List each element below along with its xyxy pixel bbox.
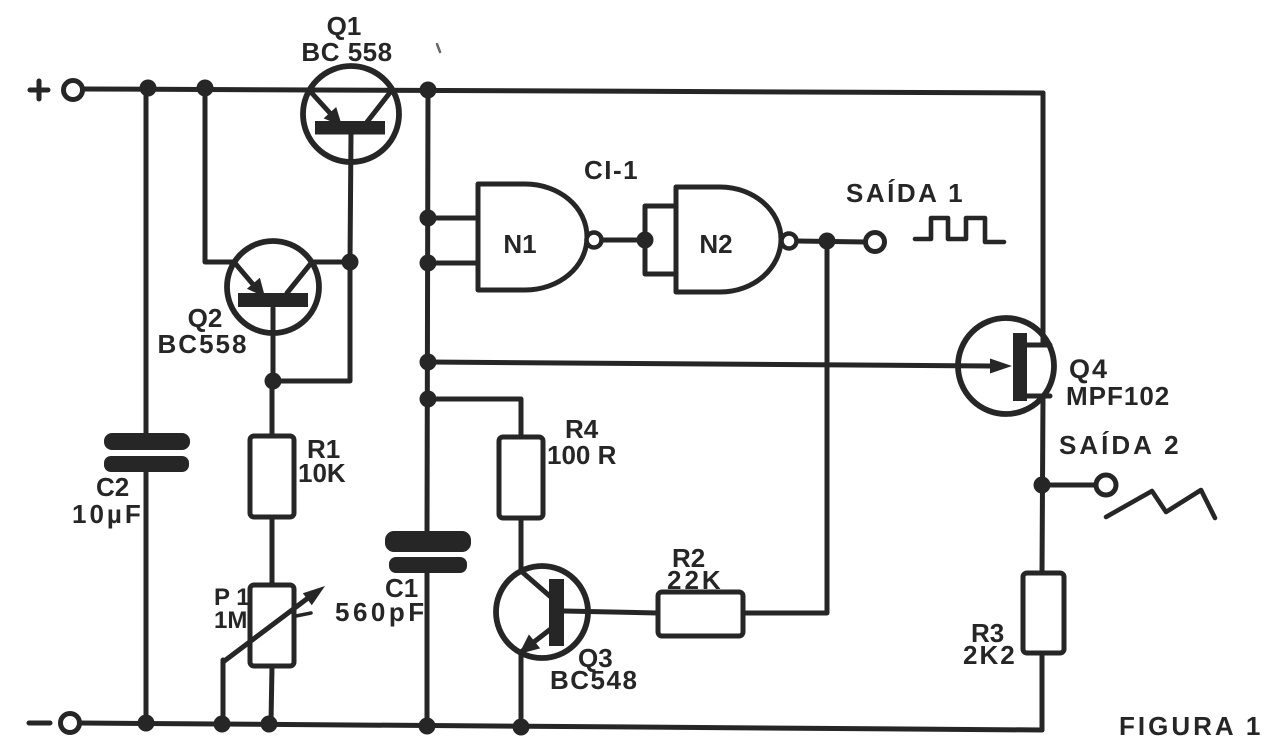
wire Q4 source down — [1042, 396, 1043, 573]
wire R3 bottom lead — [1040, 653, 1045, 730]
node N1 input a — [420, 210, 437, 227]
svg-text:1M: 1M — [214, 607, 247, 634]
svg-text:100 R: 100 R — [547, 440, 617, 470]
wire N1 input stub b — [428, 261, 478, 266]
transistor Q2 — [227, 241, 319, 333]
node rail-C1 — [420, 82, 437, 99]
node saida1 — [819, 233, 836, 250]
wire Q2 base lead — [271, 308, 276, 381]
node Q1 base / Q2 collector — [342, 254, 359, 271]
wire P1 wiper to rail — [221, 660, 226, 724]
transistor Q1 — [303, 66, 399, 162]
wire N2 output — [797, 241, 866, 242]
transistor Q4 — [958, 318, 1054, 414]
svg-text:10K: 10K — [298, 458, 346, 488]
wire R4 feed horizontal — [428, 399, 521, 437]
terminal saida1 — [866, 233, 885, 252]
node rail-C2 — [140, 80, 157, 97]
wire Q2 emitter feed — [205, 89, 234, 262]
tick mark near P1 arrow — [296, 613, 311, 616]
wire bottom rail — [81, 723, 1042, 730]
wire C1 bottom lead — [425, 572, 430, 726]
capacitor C1 — [385, 531, 471, 573]
wire C2 bottom lead — [144, 470, 149, 723]
svg-text:Q4: Q4 — [1069, 354, 1109, 384]
node rail-Q2 — [197, 80, 214, 97]
capacitor C2 — [104, 433, 190, 472]
node gate wire — [420, 354, 437, 371]
transistor Q3 — [496, 566, 588, 658]
node Q2 base / R1 top — [265, 373, 282, 390]
gate N2 — [676, 187, 797, 292]
wire Q2 collector stub — [312, 260, 350, 265]
wire R4 bottom to Q3 — [519, 518, 524, 571]
stray tick mark — [437, 44, 440, 52]
plus terminal — [64, 81, 83, 100]
resistor R3 — [1023, 573, 1064, 653]
node rail-wiper — [214, 716, 231, 733]
wire Q1 base lead — [350, 134, 351, 262]
plus sign — [30, 81, 48, 99]
svg-text:SAÍDA 2: SAÍDA 2 — [1059, 430, 1182, 460]
wire R1 top lead — [270, 381, 275, 436]
resistor R4 — [499, 437, 543, 518]
svg-text:BC558: BC558 — [158, 329, 249, 359]
svg-text:CI-1: CI-1 — [584, 155, 639, 185]
node R4 feed — [420, 391, 437, 408]
wire N2 output to R2 — [743, 241, 827, 613]
minus sign — [29, 721, 50, 726]
wire Q3 base to R2 — [564, 611, 658, 613]
minus terminal — [61, 714, 80, 733]
node rail-C1 — [419, 718, 436, 735]
wire N1 output — [602, 238, 645, 243]
svg-text:22K: 22K — [667, 565, 724, 595]
terminal saida2 — [1096, 475, 1116, 495]
node rail-P1 — [261, 716, 278, 733]
svg-text:N1: N1 — [503, 229, 536, 259]
wire top rail — [84, 89, 1043, 93]
gate N1 — [478, 184, 602, 290]
square wave symbol — [915, 218, 1004, 242]
node N1 output — [637, 232, 654, 249]
wire N2 input bracket — [645, 206, 676, 274]
wire saida2 stub — [1042, 483, 1096, 488]
svg-text:BC 558: BC 558 — [301, 37, 392, 67]
potentiometer P1 — [223, 585, 325, 666]
svg-text:MPF102: MPF102 — [1066, 381, 1170, 411]
svg-text:10µF: 10µF — [72, 499, 144, 529]
wire R1 to P1 — [270, 517, 275, 585]
resistor R1 — [250, 436, 294, 517]
svg-text:2K2: 2K2 — [963, 640, 1017, 670]
node rail-C2 bottom — [138, 715, 155, 732]
svg-text:560pF: 560pF — [335, 597, 428, 627]
wire Q4 gate — [428, 362, 990, 366]
wire Q3 emitter to rail — [519, 652, 524, 727]
wire P1 bottom lead — [271, 666, 272, 723]
wire right vertical (top rail to Q4 drain) — [1041, 93, 1046, 345]
sawtooth wave symbol — [1106, 490, 1215, 518]
svg-text:N2: N2 — [699, 229, 732, 259]
svg-text:SAÍDA 1: SAÍDA 1 — [846, 178, 965, 208]
svg-text:C2: C2 — [96, 472, 129, 502]
node N1 input b — [420, 255, 437, 272]
wire N1 input stub a — [428, 216, 478, 221]
wire C1 branch vertical — [427, 90, 428, 533]
wire Q2 base to R1 junction — [273, 262, 350, 381]
resistor R2 — [658, 592, 743, 636]
node saida2 — [1034, 477, 1051, 494]
svg-text:BC548: BC548 — [550, 665, 638, 695]
wire C2 top lead — [144, 89, 149, 435]
node rail-Q3 — [513, 719, 530, 736]
svg-text:FIGURA 1: FIGURA 1 — [1119, 711, 1263, 741]
